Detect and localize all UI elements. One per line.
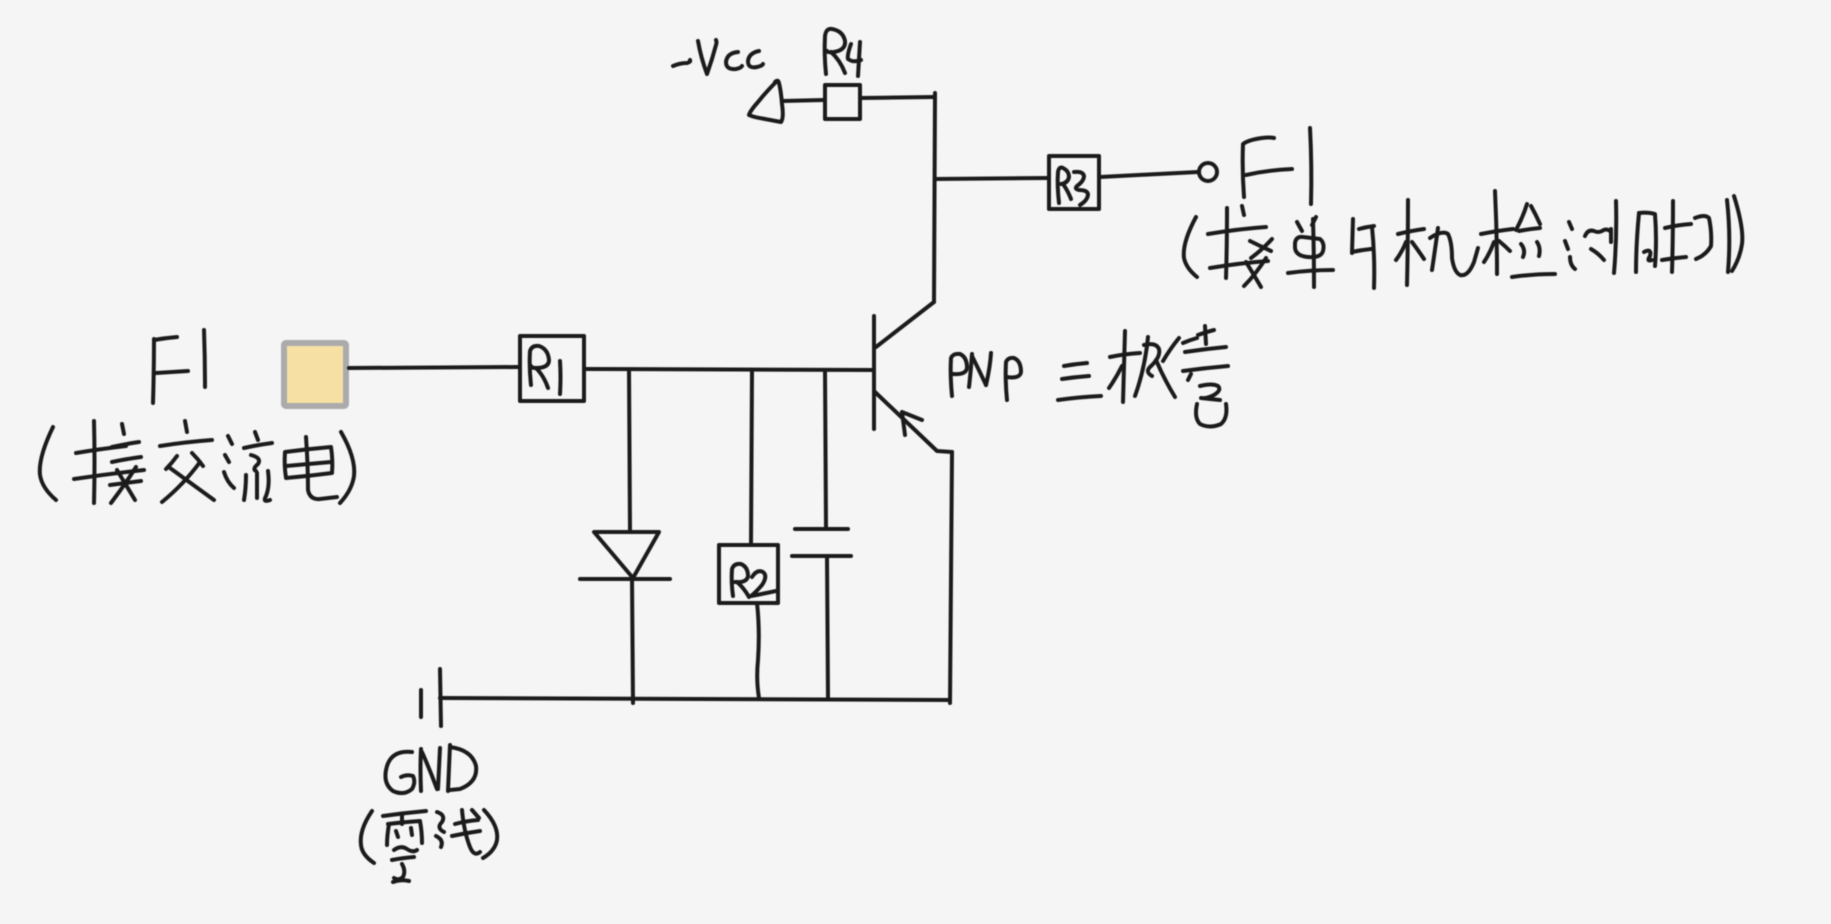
wire emitter vertical	[950, 452, 952, 703]
label -Vcc	[673, 40, 763, 74]
diode D1	[594, 532, 659, 578]
text (接单片机检测脚)	[1184, 191, 1743, 288]
ground bus wire	[440, 698, 950, 700]
text (接交流电)	[40, 421, 354, 503]
接	[92, 421, 97, 503]
label R1	[530, 346, 561, 394]
transistor collector diagonal	[876, 302, 934, 347]
wire collector vertical	[934, 93, 935, 302]
)	[340, 432, 354, 503]
label 三极管	[1058, 326, 1228, 427]
emitter arrow	[902, 412, 922, 435]
wire node to R3	[935, 178, 1049, 179]
diode branch wire	[629, 370, 630, 532]
机	[1407, 200, 1408, 285]
三	[1064, 363, 1087, 366]
wire R4 to collector node	[861, 97, 934, 98]
极	[1123, 331, 1125, 402]
(	[361, 811, 374, 863]
capacitor C1 top plate	[795, 527, 848, 531]
流	[228, 436, 232, 444]
label R4	[825, 29, 861, 76]
R2 branch wire	[751, 370, 752, 545]
(	[1184, 217, 1197, 277]
脚	[1636, 213, 1639, 272]
接	[1226, 208, 1227, 278]
F1 pad (yellow)	[284, 343, 346, 406]
label R2	[732, 564, 776, 597]
wire pad to R1	[349, 367, 520, 368]
resistor R4	[825, 85, 860, 119]
power symbol -Vcc arrow	[749, 81, 783, 122]
管	[1163, 338, 1179, 361]
diode cathode bar	[580, 577, 670, 581]
)	[1732, 196, 1742, 271]
terminal circle F1	[1199, 163, 1217, 181]
capacitor C1 bottom plate	[792, 554, 851, 558]
wire Vcc arrow to R4	[782, 100, 824, 101]
wire diode to ground bus	[632, 578, 633, 703]
wire R1 to base	[584, 369, 872, 370]
单	[1297, 222, 1302, 231]
label R3 scribble	[1058, 168, 1088, 206]
测	[1569, 222, 1572, 229]
transistor emitter diagonal	[875, 392, 952, 452]
transistor Q1 base bar	[872, 316, 876, 429]
片	[1352, 219, 1353, 253]
label PNP	[951, 353, 1021, 400]
capacitor branch wire	[825, 370, 826, 527]
label F1 (left)	[153, 330, 205, 403]
wire capacitor to ground bus	[827, 556, 828, 699]
检	[1495, 191, 1497, 274]
resistor R2	[719, 545, 778, 603]
线	[437, 812, 444, 832]
label (零线)	[361, 810, 498, 882]
交	[185, 421, 187, 432]
label GND	[385, 745, 476, 793]
wire R3 to terminal	[1100, 172, 1198, 177]
(	[40, 427, 56, 500]
ground symbol	[440, 669, 441, 726]
resistor R3	[1049, 156, 1099, 209]
零	[383, 811, 426, 816]
resistor R1	[520, 336, 584, 401]
wire R2 to ground bus	[757, 603, 759, 698]
)	[483, 810, 497, 858]
label F1 (right)	[1243, 128, 1312, 204]
电	[285, 447, 333, 478]
